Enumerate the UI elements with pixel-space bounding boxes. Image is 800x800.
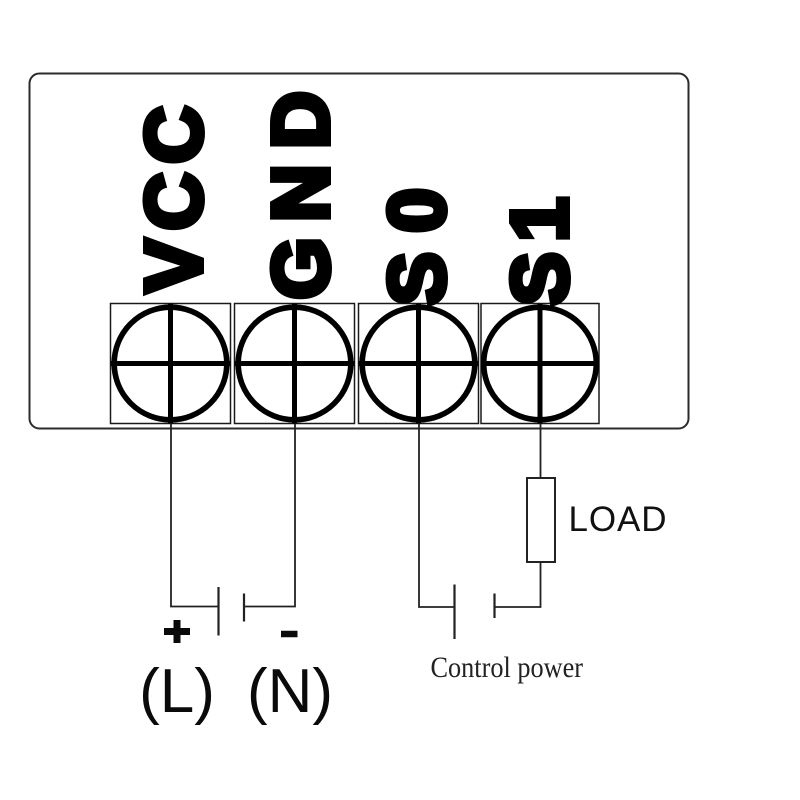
minus sign (281, 631, 298, 638)
svg-text:GND: GND (256, 76, 345, 300)
svg-text:LOAD: LOAD (569, 500, 668, 539)
label VCC (129, 97, 218, 292)
screw cross S0 (359, 304, 479, 424)
screw cross S1 (481, 304, 599, 424)
screw circle S0 (362, 307, 475, 420)
svg-text:Control power: Control power (431, 651, 584, 684)
terminal square VCC (111, 304, 231, 424)
svg-text:(L): (L) (139, 657, 215, 726)
terminal square GND (235, 304, 355, 424)
wire S0 to control battery (419, 424, 454, 608)
svg-text:S1: S1 (495, 187, 584, 306)
label GND (256, 76, 345, 300)
battery positive plate (217, 587, 219, 636)
svg-text:VCC: VCC (129, 97, 218, 292)
screw cross VCC (111, 304, 231, 424)
plus sign (164, 620, 190, 643)
label LOAD (569, 500, 668, 539)
screw circle VCC (114, 307, 227, 420)
wire S1 to load (540, 424, 542, 479)
label S0 (372, 169, 461, 306)
label S1 (495, 187, 584, 306)
svg-text:(N): (N) (247, 657, 333, 726)
screw circle GND (238, 307, 351, 420)
load resistor (527, 478, 555, 562)
label (N) (247, 657, 333, 726)
terminal square S1 (481, 304, 599, 424)
control battery left plate (453, 585, 455, 640)
device outline (30, 74, 689, 429)
battery negative plate (243, 594, 245, 622)
label Control power (431, 651, 584, 684)
label (L) (139, 657, 215, 726)
wire control battery to load (496, 563, 541, 608)
wire VCC to battery positive (171, 424, 218, 607)
wire battery negative to GND (245, 424, 295, 607)
svg-text:S0: S0 (372, 169, 461, 306)
screw circle S1 (484, 307, 597, 420)
screw cross GND (235, 304, 355, 424)
terminal square S0 (359, 304, 479, 424)
control battery right plate (493, 594, 495, 619)
